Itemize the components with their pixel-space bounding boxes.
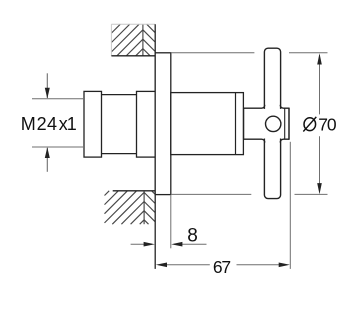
svg-text:67: 67 [213,257,231,277]
svg-text:M: M [21,114,36,134]
svg-text:8: 8 [187,225,198,246]
svg-text:70: 70 [318,115,337,135]
svg-text:24: 24 [37,114,58,134]
svg-text:x1: x1 [59,114,77,134]
